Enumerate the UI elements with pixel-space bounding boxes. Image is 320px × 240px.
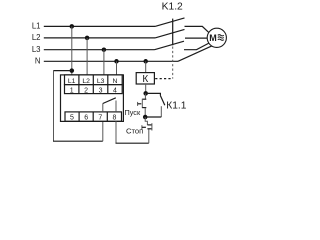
wire terminal7 riser [102,121,104,141]
wire loop bottom horizontal [53,140,103,142]
pushbutton Стоп top lead [145,117,147,125]
svg-text:L2: L2 [82,78,90,85]
svg-text:K1.2: K1.2 [162,2,183,13]
junction L2 tap [85,36,90,41]
pushbutton Пуск top lead [144,93,146,99]
svg-text:1: 1 [70,87,74,94]
contactor K1.2 linkage dashed horizontal to coil [155,78,173,80]
wire pole1 output [185,26,210,32]
pushbutton Стоп top contact tick [147,124,151,126]
motor M1 3-phase tildes [218,35,224,41]
junction branch split [143,91,148,96]
wire L3 drop [103,50,105,75]
junction branch rejoin [143,115,148,120]
pushbutton Пуск top contact tick [142,98,146,100]
svg-text:N: N [113,78,118,85]
wire coil feed [145,61,147,72]
pushbutton Пуск bottom lead [144,108,146,117]
wire L1 drop [71,26,73,75]
internal relay contact blade [103,98,116,104]
device terminal numbers row 1 2 3 4 [65,85,123,95]
wire stop-button bottom horizontal [116,142,149,144]
pushbutton Стоп bridge [151,123,153,130]
contactor K1.2 linkage dashed vertical [172,47,174,79]
pushbutton Пуск bridge [141,99,143,108]
device header row cells L1 L2 L3 N [65,75,123,85]
device bottom terminals row 5 6 7 8 [65,112,122,122]
wire loop left horizontal [54,70,72,72]
wire N bus [44,60,178,62]
wire L3 bus [44,49,155,51]
device outline [61,75,124,122]
auxiliary contact K1.1 blade [160,96,164,106]
svg-text:5: 5 [70,115,74,122]
pushbutton Стоп bottom contact tick [147,128,151,130]
internal relay contact pivot lead [102,104,104,112]
junction L1 loop tap [70,68,75,73]
svg-text:L3: L3 [32,45,41,54]
pushbutton Пуск rod [138,103,142,105]
contactor K1.2 pole1 blade [155,18,185,27]
junction L3 tap [102,47,107,52]
junction N coil tap [143,59,148,64]
wire K1.1 bottom branch [145,116,161,118]
wire N drop [116,61,118,75]
wire pole2 output [185,37,207,39]
contactor K1.2 pole2 blade [155,29,185,38]
wire loop left vertical [53,70,55,141]
wire pole3 output [184,43,209,50]
junction N tap [114,59,119,64]
junction L1 tap [70,24,75,29]
svg-text:2: 2 [84,87,88,94]
svg-text:L1: L1 [32,22,41,31]
wire terminal8 drop [115,121,117,143]
svg-text:L3: L3 [97,78,105,85]
svg-text:Пуск: Пуск [125,108,141,117]
wire L1 bus [44,25,155,27]
svg-text:6: 6 [84,115,88,122]
contactor K1.2 pole3 blade [155,41,185,50]
svg-text:К: К [142,74,148,85]
wire K1.1 bottom lead [160,106,162,117]
pushbutton Стоп rod [142,126,146,128]
svg-text:L2: L2 [32,33,41,42]
wire coil bottom lead [145,84,147,93]
svg-text:К1.1: К1.1 [166,101,186,112]
contactor coil K box [136,73,154,84]
internal relay contact fixed lead [115,101,117,112]
pushbutton Пуск bottom contact tick [142,107,146,109]
wire stop-button bottom riser [148,129,150,143]
svg-text:Стоп: Стоп [126,126,143,135]
pushbutton Стоп cap [141,125,143,129]
pushbutton Пуск cap [137,102,139,106]
wire K1.1 top branch [146,93,161,95]
svg-text:4: 4 [113,87,117,94]
svg-text:M: M [209,33,217,43]
wire N diagonal to motor [178,46,212,61]
contactor K1.2 linkage bar solid [172,19,174,46]
svg-text:N: N [35,57,41,66]
svg-text:7: 7 [98,115,102,122]
svg-text:8: 8 [112,115,116,122]
motor M1 circle [207,28,226,47]
svg-text:L1: L1 [68,78,76,85]
wire L2 bus [44,37,155,39]
wire L2 drop [86,38,88,75]
svg-text:3: 3 [99,87,103,94]
